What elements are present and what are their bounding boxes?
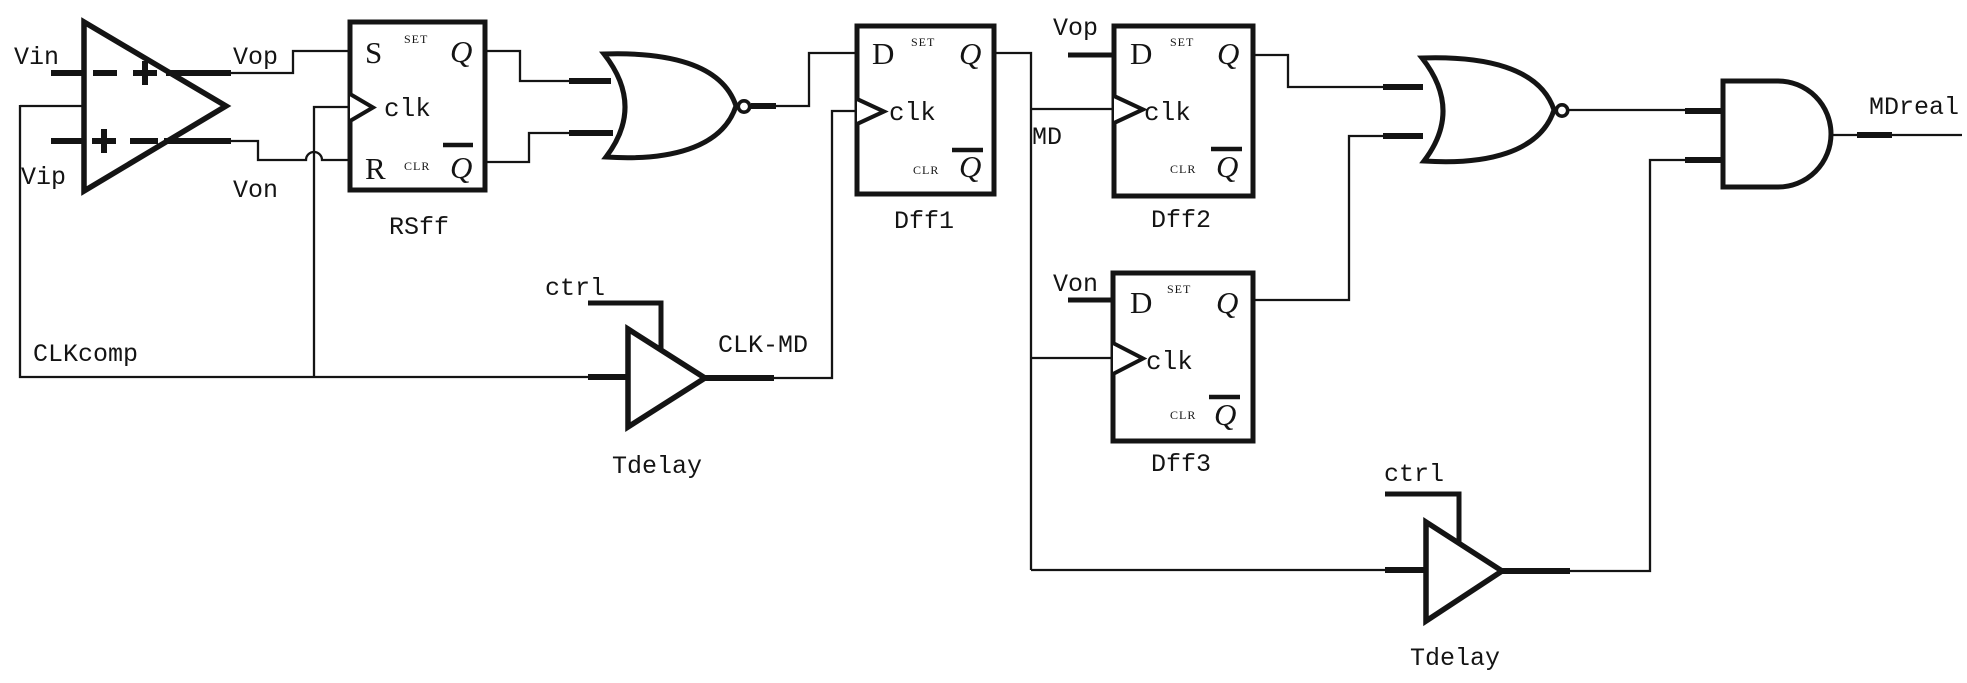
svg-text:Q: Q [1217, 36, 1239, 71]
svg-text:clk: clk [1144, 98, 1191, 128]
svg-text:S: S [365, 35, 382, 70]
svg-text:Q: Q [1214, 397, 1236, 432]
svg-text:Von: Von [1053, 270, 1098, 299]
svg-text:MDreal: MDreal [1869, 93, 1959, 122]
svg-text:CLR: CLR [404, 159, 430, 173]
svg-text:SET: SET [404, 32, 428, 46]
svg-text:Q: Q [450, 150, 472, 185]
svg-text:Vop: Vop [233, 43, 278, 72]
svg-text:RSff: RSff [389, 213, 449, 242]
svg-text:ctrl: ctrl [1384, 460, 1444, 489]
svg-text:Dff2: Dff2 [1151, 206, 1211, 235]
svg-text:Q: Q [959, 36, 981, 71]
svg-text:Vop: Vop [1053, 14, 1098, 43]
svg-text:Q: Q [450, 34, 472, 69]
svg-text:Tdelay: Tdelay [1410, 644, 1500, 673]
svg-text:D: D [872, 36, 894, 71]
svg-text:CLR: CLR [1170, 162, 1196, 176]
svg-text:CLR: CLR [1170, 408, 1196, 422]
svg-text:D: D [1130, 285, 1152, 320]
svg-text:ctrl: ctrl [545, 274, 605, 303]
svg-text:clk: clk [889, 98, 936, 128]
svg-text:Q: Q [959, 149, 981, 184]
svg-text:SET: SET [1167, 282, 1191, 296]
svg-text:Q: Q [1216, 285, 1238, 320]
svg-text:CLR: CLR [913, 163, 939, 177]
svg-text:CLKcomp: CLKcomp [33, 340, 138, 369]
svg-text:D: D [1130, 36, 1152, 71]
svg-text:R: R [365, 151, 386, 186]
svg-text:clk: clk [384, 94, 431, 124]
svg-text:CLK-MD: CLK-MD [718, 331, 808, 360]
svg-text:Vip: Vip [21, 163, 66, 192]
svg-text:clk: clk [1146, 347, 1193, 377]
svg-text:Q: Q [1216, 149, 1238, 184]
svg-text:Vin: Vin [14, 43, 59, 72]
svg-text:Von: Von [233, 176, 278, 205]
svg-text:SET: SET [911, 35, 935, 49]
svg-text:Tdelay: Tdelay [612, 452, 702, 481]
svg-text:SET: SET [1170, 35, 1194, 49]
svg-text:Dff1: Dff1 [894, 207, 954, 236]
svg-text:Dff3: Dff3 [1151, 450, 1211, 479]
svg-text:MD: MD [1032, 123, 1062, 152]
